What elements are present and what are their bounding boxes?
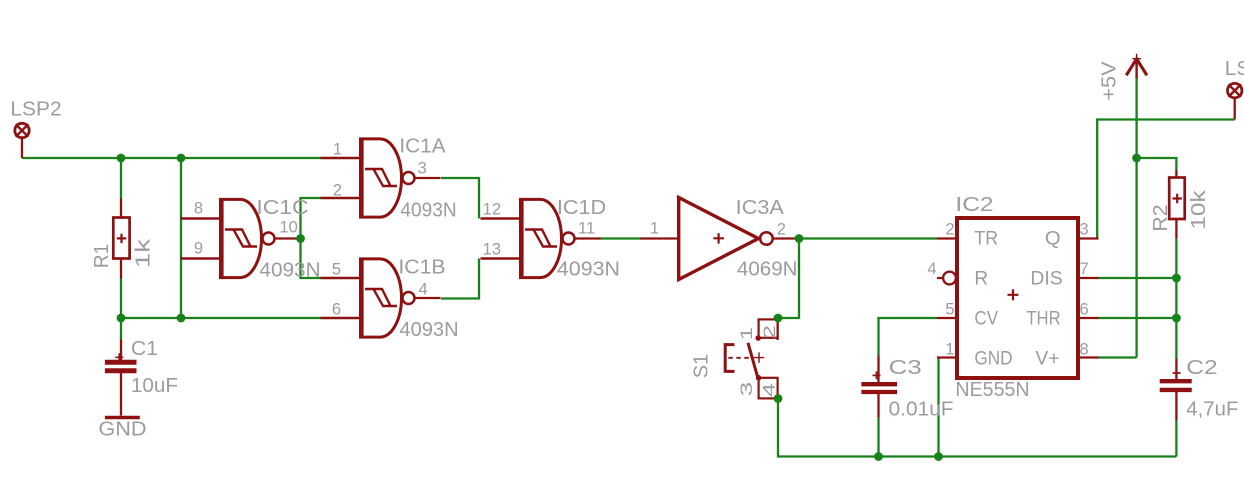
svg-text:13: 13 [483,241,501,259]
junction [177,154,186,163]
inverter IC3A (4069N) [640,198,799,280]
junction [1132,154,1141,163]
svg-text:8: 8 [1080,341,1089,359]
svg-text:C1: C1 [131,338,158,360]
junction [934,452,943,461]
wire [120,158,122,199]
wire [879,318,938,356]
ground symbol [105,416,140,419]
svg-text:NE555N: NE555N [955,378,1029,401]
svg-text:10uF: 10uF [131,375,178,397]
wire [600,237,640,239]
svg-text:8: 8 [194,200,203,218]
wire [120,279,122,319]
junction [296,234,305,243]
wire [778,399,1176,457]
wire [778,239,799,319]
svg-text:4069N: 4069N [737,259,798,281]
svg-text:GND: GND [98,418,146,441]
svg-text:R1: R1 [91,244,113,268]
svg-text:LSP1: LSP1 [1225,57,1244,80]
switch S1 [725,318,777,398]
junction [874,452,883,461]
wire [1098,277,1176,279]
svg-text:IC3A: IC3A [736,197,785,219]
svg-text:5: 5 [945,301,954,319]
ic IC2 NE555N [937,218,1099,378]
svg-text:2: 2 [761,325,779,339]
wire [1098,317,1176,319]
svg-text:3: 3 [738,382,756,396]
svg-text:10: 10 [280,219,298,237]
svg-text:1: 1 [650,220,659,238]
svg-text:Q: Q [1045,227,1061,249]
wire [301,198,322,278]
svg-text:4093N: 4093N [259,260,320,282]
svg-text:9: 9 [194,240,203,258]
svg-text:4093N: 4093N [400,200,456,222]
wire [1137,158,1177,170]
wire [121,317,322,319]
svg-text:+5V: +5V [1099,61,1121,101]
svg-text:2: 2 [945,221,954,239]
wire [22,157,322,159]
svg-text:2: 2 [333,182,342,200]
svg-text:7: 7 [1080,260,1089,278]
wire [877,418,879,457]
supply +5V [1126,54,1147,79]
nand gate IC1C (4093N) [181,198,301,279]
solder pad LSP1 [1228,83,1242,119]
wire [120,318,122,340]
junction [1172,274,1181,283]
svg-text:CV: CV [974,307,998,329]
junction [117,154,126,163]
svg-text:V+: V+ [1035,347,1059,369]
svg-text:4: 4 [419,281,428,299]
junction [774,314,783,323]
svg-text:IC1D: IC1D [557,197,606,219]
svg-text:2: 2 [777,221,786,239]
resistor R2 (10k) [1169,170,1185,239]
svg-text:IC2: IC2 [955,193,993,216]
svg-text:C3: C3 [889,357,922,379]
svg-text:IC1B: IC1B [398,257,445,279]
svg-text:1: 1 [945,341,954,359]
svg-text:S1: S1 [690,354,713,378]
junction [1172,314,1181,323]
wire [1098,356,1137,358]
svg-text:4: 4 [927,260,936,278]
svg-text:6: 6 [1080,301,1089,319]
svg-text:GND: GND [974,347,1012,369]
capacitor C3 (0.01uF) [861,356,897,418]
svg-text:1k: 1k [133,238,155,269]
svg-text:1: 1 [738,327,756,340]
junction [117,314,126,323]
svg-text:LSP2: LSP2 [10,98,61,121]
svg-text:4093N: 4093N [557,259,620,281]
wire [1135,79,1137,358]
wire [1097,120,1235,239]
svg-text:THR: THR [1026,307,1060,329]
svg-text:0.01uF: 0.01uF [889,399,954,421]
capacitor C2 (4,7uF) [1160,359,1192,421]
wire [441,259,479,299]
svg-text:11: 11 [578,220,595,238]
wire [937,358,939,457]
nand gate IC1A (4093N) [321,138,441,219]
svg-text:DIS: DIS [1030,267,1062,289]
svg-text:4093N: 4093N [399,319,458,341]
svg-text:12: 12 [483,201,501,219]
solder pad LSP2 [15,123,29,158]
svg-text:5: 5 [332,261,341,279]
wire [1175,421,1177,457]
wire [180,158,182,318]
junction [795,234,804,243]
wire [799,237,938,239]
svg-text:10k: 10k [1188,189,1210,229]
svg-text:1: 1 [333,141,342,159]
resistor R1 (1k) [113,199,129,279]
junction [774,394,783,403]
capacitor C1 (10uF) [105,340,137,416]
svg-text:C2: C2 [1186,357,1217,379]
wire [1175,239,1177,359]
svg-text:TR: TR [974,227,998,249]
svg-text:R2: R2 [1150,204,1172,231]
svg-text:3: 3 [1080,221,1089,239]
svg-text:IC1A: IC1A [399,136,446,158]
nand gate IC1B (4093N) [321,258,441,339]
svg-text:6: 6 [332,301,341,319]
svg-text:3: 3 [418,160,427,178]
svg-text:4,7uF: 4,7uF [1186,399,1238,421]
svg-text:IC1C: IC1C [256,197,308,219]
wire [441,178,479,219]
junction [177,314,186,323]
nand gate IC1D (4093N) [481,198,601,279]
svg-text:R: R [974,267,988,289]
